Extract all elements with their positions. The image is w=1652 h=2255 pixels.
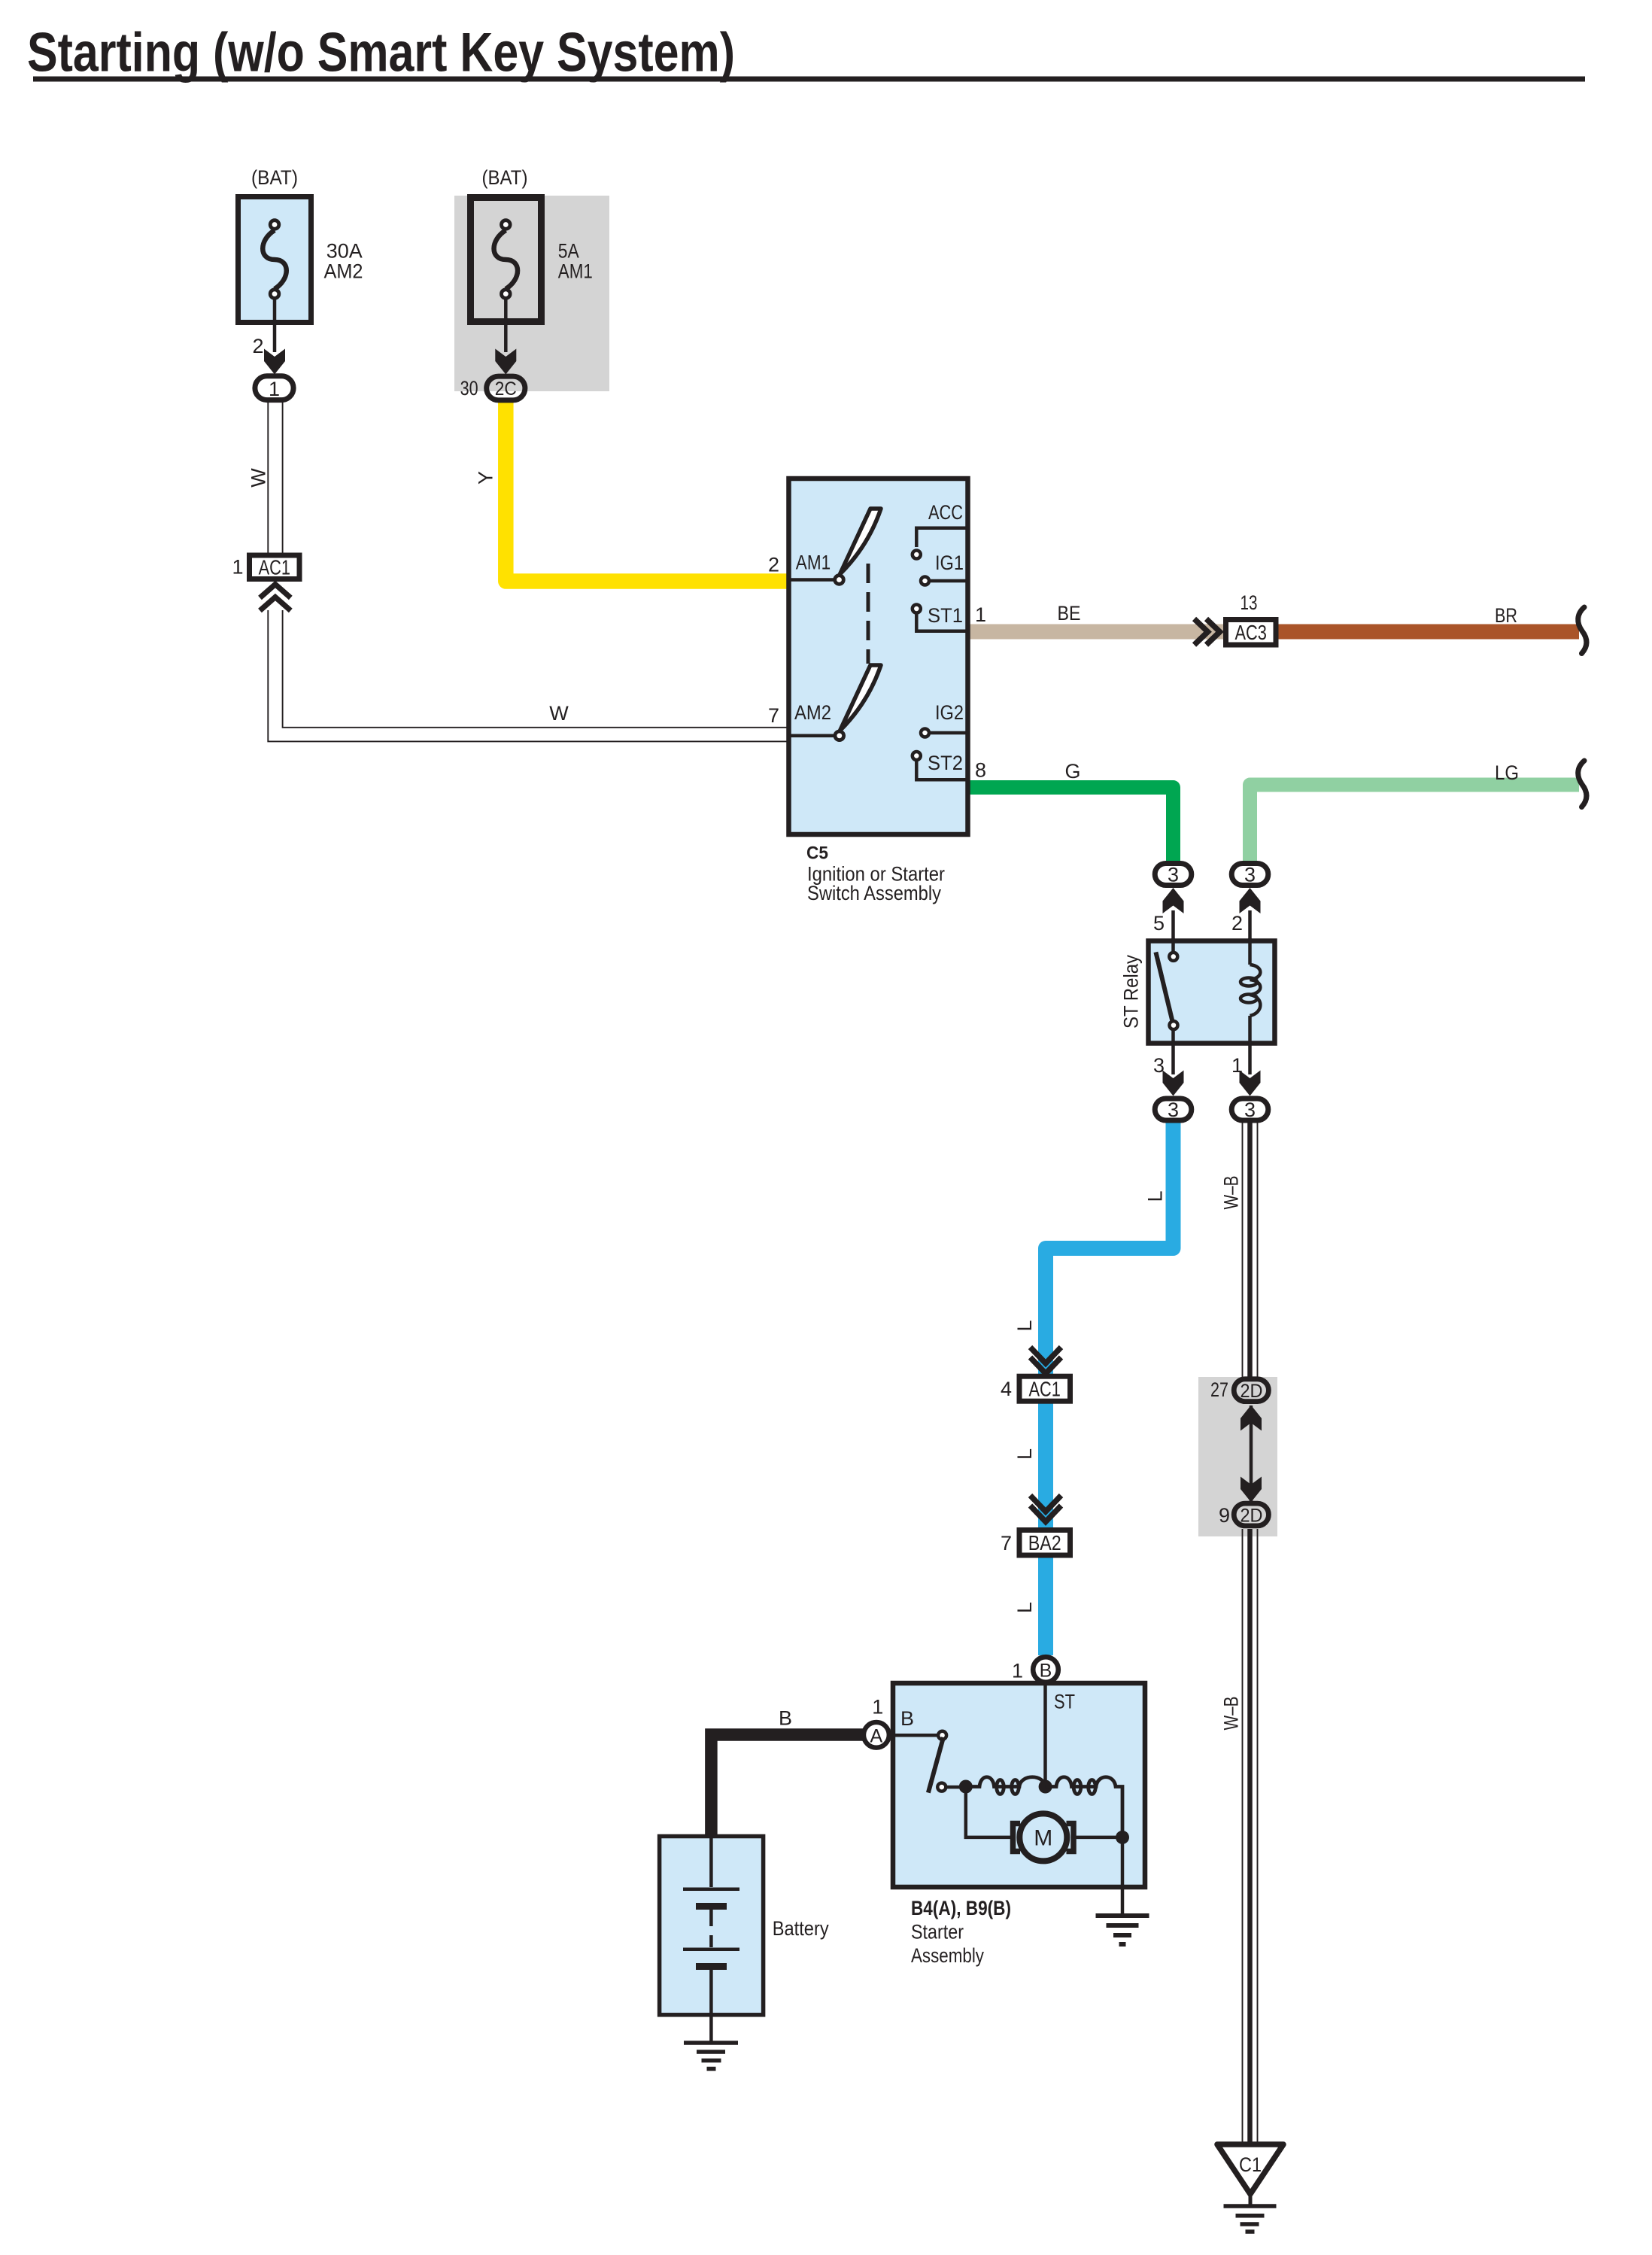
page title bbox=[27, 23, 1585, 84]
wire W-B from junction 2D to ground C1 bbox=[1243, 1529, 1258, 2146]
svg-text:Assembly: Assembly bbox=[911, 1944, 984, 1967]
svg-text:ST1: ST1 bbox=[928, 604, 963, 627]
svg-text:8: 8 bbox=[975, 759, 986, 782]
connector 3 (top left) bbox=[1155, 864, 1192, 886]
battery ground wire bbox=[709, 2016, 713, 2043]
solenoid coil 2 bbox=[1046, 1777, 1122, 1831]
AM2 contact and lever bbox=[790, 734, 834, 738]
svg-text:AM1: AM1 bbox=[796, 551, 831, 573]
wire BR from AC3 to right break bbox=[1278, 625, 1579, 640]
svg-text:B: B bbox=[900, 1707, 914, 1730]
svg-text:27: 27 bbox=[1210, 1378, 1228, 1401]
svg-text:W–B: W–B bbox=[1220, 1697, 1243, 1731]
svg-text:AM2: AM2 bbox=[324, 260, 363, 282]
svg-text:C5: C5 bbox=[806, 843, 828, 864]
connector BA2 bbox=[1019, 1530, 1070, 1556]
terminal A circle bbox=[864, 1722, 889, 1748]
svg-text:C1: C1 bbox=[1239, 2153, 1262, 2176]
relay switch lever bbox=[1155, 952, 1172, 1021]
connector 2C (capsule) bbox=[487, 376, 525, 400]
C1 ground stem bbox=[1249, 2194, 1253, 2206]
svg-text:AM1: AM1 bbox=[558, 260, 593, 282]
starter assembly box bbox=[893, 1683, 1145, 1887]
wire LG from right break to ST relay pin 2 bbox=[1250, 785, 1580, 862]
IG2 contact bbox=[921, 729, 929, 737]
svg-text:L: L bbox=[1144, 1190, 1167, 1202]
arrow into connector 1 bbox=[264, 349, 285, 375]
svg-text:Y: Y bbox=[475, 471, 497, 485]
svg-text:ST Relay: ST Relay bbox=[1120, 955, 1143, 1029]
chevron arrows on L wire above BA2 (pointing down) bbox=[1031, 1496, 1061, 1522]
wire W-B from relay pin 1 to junction 2D (double line with black stripe) bbox=[1243, 1123, 1258, 1377]
wire from fuse AM1 to connector 2C bbox=[504, 299, 508, 352]
motor left feed wire bbox=[966, 1787, 1013, 1837]
svg-text:5: 5 bbox=[1153, 912, 1165, 935]
wire BE from ST1 to connector AC3 bbox=[969, 625, 1223, 640]
starter switch: wire from A to contact bbox=[888, 1734, 937, 1737]
ground wire starter bbox=[1121, 1837, 1125, 1916]
chevron arrows before AC3 (pointing right) bbox=[1195, 619, 1220, 646]
connector 3 (top right) bbox=[1231, 864, 1268, 886]
svg-text:3: 3 bbox=[1244, 864, 1256, 886]
wire relay pin 1 bbox=[1248, 1046, 1252, 1074]
svg-text:4: 4 bbox=[1001, 1378, 1012, 1400]
connector 1 (capsule) bbox=[255, 376, 293, 400]
svg-text:M: M bbox=[1034, 1826, 1052, 1851]
svg-text:13: 13 bbox=[1241, 591, 1258, 614]
arrow down above 2D bottom bbox=[1241, 1477, 1262, 1503]
svg-text:A: A bbox=[870, 1726, 883, 1747]
ST2 contact bracket bbox=[913, 752, 921, 760]
connector AC1 (left) bbox=[250, 555, 300, 579]
wire relay pin 5 bbox=[1171, 910, 1175, 941]
svg-text:Battery: Battery bbox=[773, 1917, 829, 1940]
svg-text:1: 1 bbox=[975, 603, 986, 626]
svg-text:ST2: ST2 bbox=[928, 752, 963, 774]
svg-text:W: W bbox=[549, 702, 569, 725]
svg-text:3: 3 bbox=[1168, 864, 1179, 886]
svg-text:AC3: AC3 bbox=[1235, 621, 1267, 644]
arrow down into connector 3 bottom-right bbox=[1240, 1071, 1261, 1096]
ST1 contact bracket bbox=[913, 605, 921, 613]
wire between 2D connectors bbox=[1250, 1406, 1253, 1501]
svg-text:IG1: IG1 bbox=[935, 552, 964, 574]
svg-text:W: W bbox=[247, 468, 270, 488]
svg-text:2D: 2D bbox=[1241, 1506, 1263, 1527]
connector 2D (top) bbox=[1234, 1379, 1268, 1402]
svg-text:5A: 5A bbox=[558, 239, 579, 262]
svg-text:7: 7 bbox=[1001, 1532, 1012, 1554]
connector AC3 bbox=[1226, 620, 1277, 646]
connector AC1 (on L wire) bbox=[1019, 1376, 1070, 1401]
svg-text:Starter: Starter bbox=[911, 1921, 964, 1943]
motor M bbox=[1013, 1813, 1074, 1861]
svg-text:LG: LG bbox=[1495, 761, 1519, 784]
svg-text:3: 3 bbox=[1244, 1099, 1256, 1121]
fuse AM2 30A bbox=[238, 197, 311, 323]
battery box bbox=[660, 1837, 764, 2015]
break squiggle LG bbox=[1578, 761, 1587, 807]
junction dot (ST) bbox=[1039, 1780, 1052, 1794]
svg-text:(BAT): (BAT) bbox=[482, 166, 528, 189]
svg-text:2: 2 bbox=[768, 554, 779, 576]
svg-text:30A: 30A bbox=[326, 239, 363, 262]
arrow up into connector 3 top-right bbox=[1240, 888, 1261, 913]
gray panel 2D junction block bbox=[1198, 1377, 1277, 1536]
battery feed wire B (thick) bbox=[711, 1735, 865, 1837]
svg-text:BR: BR bbox=[1495, 604, 1517, 627]
chevron arrows on L wire above AC1 (pointing down) bbox=[1031, 1348, 1061, 1374]
motor right wire to ground bbox=[1073, 1836, 1122, 1840]
relay coil bbox=[1241, 938, 1260, 1046]
fuse AM1 5A bbox=[471, 198, 542, 322]
arrow up into connector 3 top-left bbox=[1163, 888, 1184, 913]
ground symbol starter bbox=[1096, 1916, 1149, 1944]
svg-text:2: 2 bbox=[1231, 912, 1243, 935]
starter switch lever bbox=[928, 1737, 943, 1793]
svg-text:1: 1 bbox=[872, 1696, 883, 1719]
svg-text:AC1: AC1 bbox=[1029, 1377, 1061, 1400]
ST relay bbox=[1149, 941, 1275, 1044]
ground symbol battery bbox=[684, 2043, 738, 2069]
wire relay pin 3 bbox=[1171, 1029, 1175, 1074]
svg-text:1: 1 bbox=[269, 378, 280, 400]
svg-text:2: 2 bbox=[252, 335, 263, 357]
svg-text:Starting (w/o Smart Key System: Starting (w/o Smart Key System) bbox=[27, 23, 735, 84]
svg-text:BE: BE bbox=[1058, 602, 1081, 625]
mechanical link (dashed) bbox=[867, 564, 870, 664]
svg-text:L: L bbox=[1013, 1448, 1036, 1460]
svg-text:ST: ST bbox=[1054, 1691, 1075, 1713]
wire G from ST2 to ST relay pin 5 bbox=[969, 788, 1174, 862]
svg-text:AC1: AC1 bbox=[259, 556, 290, 579]
gray panel behind fuse AM1 bbox=[454, 196, 609, 391]
break squiggle BR bbox=[1578, 607, 1587, 654]
svg-text:L: L bbox=[1013, 1320, 1036, 1331]
arrow up below 2D top bbox=[1241, 1406, 1262, 1431]
wire relay pin 2 bbox=[1248, 910, 1252, 941]
svg-text:30: 30 bbox=[460, 377, 478, 400]
svg-text:2D: 2D bbox=[1241, 1381, 1263, 1402]
svg-text:IG2: IG2 bbox=[935, 701, 964, 724]
arrow down into connector 3 bottom-left bbox=[1163, 1071, 1184, 1096]
svg-text:7: 7 bbox=[768, 704, 779, 727]
svg-text:B: B bbox=[779, 1707, 792, 1730]
svg-text:G: G bbox=[1064, 760, 1080, 783]
label 30A AM2 bbox=[324, 239, 363, 282]
svg-text:B4(A), B9(B): B4(A), B9(B) bbox=[911, 1897, 1011, 1919]
wire from fuse AM2 to connector 1 bbox=[273, 299, 277, 352]
battery internals bbox=[683, 1836, 739, 2016]
svg-text:AM2: AM2 bbox=[794, 701, 831, 724]
ground C1 triangle bbox=[1217, 2144, 1283, 2194]
wire W from connector 1 to connector AC1 (double line) bbox=[268, 402, 788, 741]
svg-text:W–B: W–B bbox=[1220, 1176, 1243, 1210]
junction dot (ground leg) bbox=[1116, 1831, 1129, 1844]
chevron arrows below AC1 (pointing up) bbox=[260, 585, 291, 611]
svg-text:Switch Assembly: Switch Assembly bbox=[807, 882, 941, 904]
svg-text:ACC: ACC bbox=[928, 501, 963, 524]
svg-text:9: 9 bbox=[1219, 1504, 1230, 1527]
ignition or starter switch assembly C5 bbox=[789, 479, 968, 834]
svg-text:1: 1 bbox=[232, 556, 243, 579]
svg-text:(BAT): (BAT) bbox=[251, 166, 298, 189]
connector 3 (bottom right) bbox=[1231, 1099, 1268, 1121]
ACC contact bracket bbox=[916, 528, 967, 547]
svg-text:B: B bbox=[1040, 1661, 1052, 1682]
IG1 contact bbox=[921, 577, 929, 585]
relay switch contacts bbox=[1171, 938, 1175, 951]
arrow into connector 2C bbox=[495, 349, 516, 375]
svg-text:L: L bbox=[1013, 1602, 1036, 1613]
ground symbol C1 bbox=[1224, 2206, 1277, 2232]
ST wire inside starter bbox=[1043, 1682, 1047, 1786]
terminal B circle on starter bbox=[1033, 1657, 1058, 1682]
svg-text:1: 1 bbox=[1012, 1660, 1023, 1682]
connector 2D (bottom) bbox=[1234, 1503, 1268, 1526]
svg-text:3: 3 bbox=[1168, 1099, 1179, 1121]
label 5A AM1 bbox=[558, 239, 593, 282]
wire L (blue) from relay pin 3 to starter B terminal bbox=[1046, 1122, 1174, 1655]
junction dot (solenoid in) bbox=[959, 1780, 973, 1794]
connector 3 (bottom left) bbox=[1155, 1099, 1192, 1121]
AM1 contact and lever bbox=[790, 578, 834, 582]
solenoid coil 1 bbox=[966, 1777, 1046, 1795]
wire Y (yellow) from connector 2C to ignition switch bbox=[506, 400, 788, 582]
svg-text:2C: 2C bbox=[495, 378, 517, 400]
svg-text:BA2: BA2 bbox=[1028, 1531, 1061, 1554]
starter switch lower contact bbox=[937, 1783, 946, 1792]
